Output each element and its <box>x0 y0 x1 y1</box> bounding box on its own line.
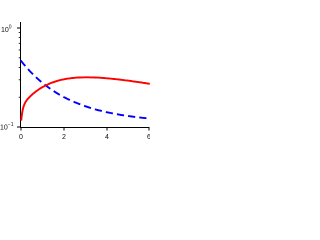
svg-text:6: 6 <box>147 134 150 141</box>
svg-text:4: 4 <box>105 134 109 141</box>
svg-text:0: 0 <box>19 134 23 141</box>
svg-text:2: 2 <box>62 134 66 141</box>
